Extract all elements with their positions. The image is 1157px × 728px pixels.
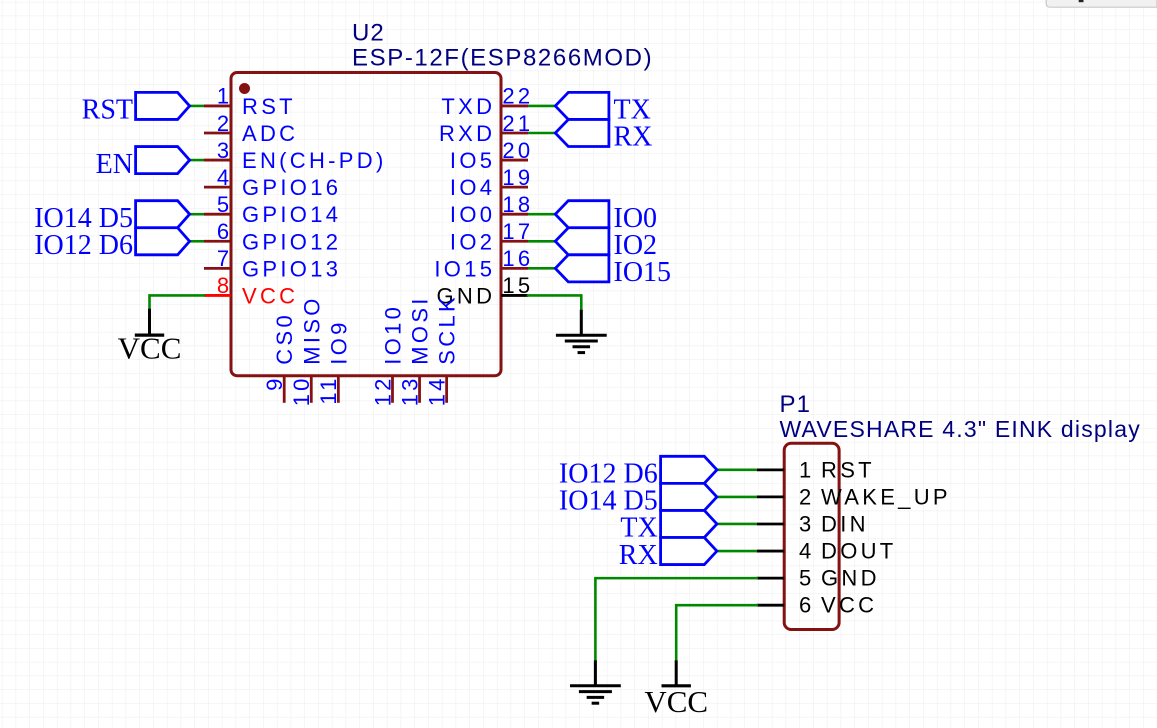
P1 pin 2 (WAKE_UP): [757, 484, 951, 509]
svg-text:SCLK: SCLK: [435, 294, 460, 365]
svg-text:DIN: DIN: [821, 511, 869, 536]
U2 pin 15 (GND) right: [437, 273, 534, 308]
svg-text:13: 13: [397, 375, 422, 406]
svg-text:5: 5: [799, 566, 814, 591]
P1 pin 3 (DIN): [757, 511, 869, 536]
svg-text:VCC: VCC: [118, 331, 182, 366]
port flag IO12 D6 (P1): [559, 456, 717, 489]
wire net RX to P1: [717, 550, 757, 553]
svg-text:MOSI: MOSI: [408, 295, 433, 364]
svg-text:IO15: IO15: [434, 256, 495, 281]
U2 pin 22 (TXD) right: [441, 84, 533, 119]
U2 pin 20 (IO5) right: [450, 138, 533, 173]
wire P1 pin5 to ground: [595, 578, 756, 660]
port flag IO2: [555, 228, 657, 261]
svg-text:ADC: ADC: [242, 121, 298, 146]
port flag IO12 D6: [34, 228, 189, 261]
svg-text:20: 20: [502, 138, 533, 163]
U2 pin 18 (IO0) right: [450, 192, 533, 227]
U2 pin 6 (GPIO12) left: [204, 219, 341, 254]
svg-text:4: 4: [799, 539, 814, 564]
svg-text:11: 11: [316, 375, 341, 404]
U2 pin 1 (RST) left: [204, 84, 296, 119]
svg-text:12: 12: [370, 375, 395, 406]
UI toolbar remnant top-right: [1046, 0, 1157, 7]
port flag TX: [555, 92, 651, 125]
svg-text:5: 5: [217, 192, 232, 217]
svg-text:EN(CH-PD): EN(CH-PD): [242, 148, 387, 173]
P1 pin 1 (RST): [757, 457, 875, 482]
svg-text:10: 10: [289, 375, 314, 406]
svg-text:CS0: CS0: [272, 312, 297, 365]
port flag RX (P1): [619, 538, 717, 571]
svg-text:IO15: IO15: [614, 257, 672, 288]
svg-text:WAVESHARE 4.3" EINK display: WAVESHARE 4.3" EINK display: [780, 416, 1141, 442]
U2 pin 16 (IO15) right: [434, 246, 533, 281]
U2 pin 5 (GPIO14) left: [204, 192, 341, 227]
ground symbol (P1): [570, 660, 621, 703]
U2 pin 8 (VCC) left: [204, 273, 298, 308]
svg-text:IO2: IO2: [450, 229, 495, 254]
U2 pin 13 (MOSI) bottom: [397, 295, 432, 406]
svg-text:6: 6: [799, 593, 814, 618]
svg-text:2: 2: [217, 111, 232, 136]
svg-text:IO10: IO10: [380, 304, 405, 365]
svg-text:IO4: IO4: [450, 175, 495, 200]
wire net EN to U2: [190, 159, 204, 162]
connector P1 designator label: [780, 391, 812, 418]
U2 pin 14 (SCLK) bottom: [424, 294, 459, 406]
port flag RX: [555, 119, 652, 152]
IC U2 part name label: [352, 45, 653, 72]
U2 pin 21 (RXD) right: [439, 111, 533, 146]
U2 pin 12 (IO10) bottom: [370, 304, 405, 406]
svg-text:6: 6: [217, 219, 232, 244]
wire U2 pin15 to ground: [528, 295, 581, 309]
svg-text:DOUT: DOUT: [821, 539, 897, 564]
svg-text:RST: RST: [242, 94, 296, 119]
connector P1 part name label: [780, 416, 1141, 442]
wire net RX to U2: [528, 132, 555, 135]
port flag IO0: [555, 201, 657, 234]
svg-text:IO0: IO0: [450, 202, 495, 227]
port flag IO15: [555, 255, 671, 288]
port flag EN: [96, 147, 190, 180]
U2 pin 11 (IO9) bottom: [316, 319, 351, 404]
wire net IO15 to U2: [528, 267, 555, 270]
svg-text:MISO: MISO: [299, 295, 324, 364]
svg-text:RST: RST: [82, 95, 133, 126]
wire P1 pin6 to VCC: [676, 605, 757, 660]
U2 pin 10 (MISO) bottom: [289, 295, 324, 406]
wire net RST to U2: [190, 105, 204, 108]
svg-text:8: 8: [217, 273, 232, 298]
svg-text:WAKE_UP: WAKE_UP: [821, 484, 951, 509]
wire net IO14 D5 to P1: [717, 496, 757, 499]
svg-text:RX: RX: [614, 122, 653, 153]
svg-text:TXD: TXD: [441, 94, 495, 119]
svg-text:GPIO16: GPIO16: [242, 175, 341, 200]
svg-text:U2: U2: [352, 20, 385, 47]
IC U2 designator label: [352, 20, 385, 47]
svg-text:IO12 D6: IO12 D6: [34, 230, 133, 261]
U2 pin 17 (IO2) right: [450, 219, 533, 254]
wire net IO14 D5 to U2: [190, 213, 204, 216]
wire net TX to U2: [528, 105, 555, 108]
U2 pin 3 (EN(CH-PD)) left: [204, 138, 387, 173]
connector P1 body outline: [784, 443, 839, 629]
svg-text:19: 19: [502, 165, 533, 190]
IC U2 pin-1 marker dot: [239, 83, 250, 94]
svg-text:GPIO12: GPIO12: [242, 229, 341, 254]
svg-text:2: 2: [799, 484, 814, 509]
U2 pin 9 (CS0) bottom: [262, 312, 297, 403]
svg-text:14: 14: [424, 375, 449, 406]
wire U2 pin8 to VCC: [150, 295, 205, 308]
U2 pin 4 (GPIO16) left: [204, 165, 341, 200]
svg-text:EN: EN: [96, 149, 133, 180]
wire net TX to P1: [717, 523, 757, 526]
svg-text:GND: GND: [821, 566, 880, 591]
U2 pin 2 (ADC) left: [204, 111, 298, 146]
svg-text:1: 1: [799, 457, 814, 482]
svg-text:VCC: VCC: [644, 684, 708, 719]
port flag TX (P1): [620, 510, 717, 543]
svg-text:RX: RX: [619, 540, 658, 571]
svg-text:4: 4: [217, 165, 232, 190]
power flag VCC (U2): [118, 309, 182, 366]
ground symbol (U2): [556, 310, 607, 353]
svg-text:GPIO14: GPIO14: [242, 202, 341, 227]
P1 pin 5 (GND): [757, 566, 880, 591]
wire net IO12 D6 to U2: [190, 240, 204, 243]
svg-text:IO5: IO5: [450, 148, 495, 173]
port flag RST: [82, 92, 190, 125]
svg-text:VCC: VCC: [821, 593, 877, 618]
svg-text:IO9: IO9: [326, 319, 351, 364]
port flag IO14 D5: [34, 201, 189, 234]
IC U2 body outline: [231, 73, 501, 376]
svg-text:7: 7: [217, 246, 232, 271]
power flag VCC (P1): [644, 660, 708, 719]
wire net IO12 D6 to P1: [717, 469, 757, 472]
svg-text:3: 3: [217, 138, 232, 163]
svg-text:3: 3: [799, 511, 814, 536]
svg-text:RST: RST: [821, 457, 875, 482]
svg-text:1: 1: [217, 84, 232, 109]
svg-text:VCC: VCC: [242, 283, 298, 308]
wire net IO2 to U2: [528, 240, 555, 243]
svg-text:ESP-12F(ESP8266MOD): ESP-12F(ESP8266MOD): [352, 45, 653, 72]
U2 pin 19 (IO4) right: [450, 165, 533, 200]
port flag IO14 D5 (P1): [559, 483, 717, 516]
wire net IO0 to U2: [528, 213, 555, 216]
P1 pin 4 (DOUT): [757, 539, 897, 564]
svg-text:P1: P1: [780, 391, 812, 418]
svg-text:9: 9: [262, 375, 287, 390]
svg-text:GPIO13: GPIO13: [242, 256, 341, 281]
svg-text:RXD: RXD: [439, 121, 495, 146]
U2 pin 7 (GPIO13) left: [204, 246, 341, 281]
P1 pin 6 (VCC): [757, 593, 878, 618]
